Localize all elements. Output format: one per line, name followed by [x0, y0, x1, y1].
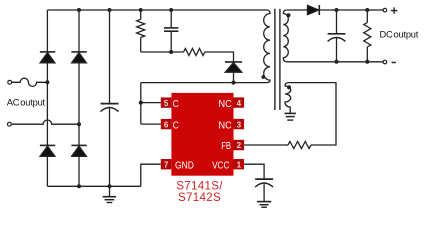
- pin 6 box: [161, 119, 172, 129]
- svg-text:C: C: [173, 120, 179, 131]
- resistor R3 (load): [364, 10, 371, 62]
- ground (aux winding): [285, 113, 296, 120]
- capacitor C3 (output electrolytic): [328, 10, 346, 62]
- wire top rail (rectified DC+): [47, 9, 266, 11]
- pin 5 box: [161, 97, 172, 107]
- transformer T1 primary winding: [264, 10, 270, 83]
- diode D6 (output rectifier): [308, 5, 320, 15]
- node bracket junction: [139, 101, 143, 105]
- svg-text:NC: NC: [219, 120, 232, 131]
- svg-text:GND: GND: [175, 161, 194, 172]
- wire to clamp diode: [205, 52, 234, 62]
- wire drain bracket to pins 5,6: [140, 83, 142, 125]
- wire snubber bottom: [141, 51, 184, 53]
- op-amp U1 S7141S/S7142S IC body: [171, 93, 233, 176]
- node drain line junction: [232, 81, 236, 85]
- node top rail junctions: [77, 8, 81, 12]
- pin 4 box: [234, 97, 245, 107]
- DC output terminal -: [383, 60, 387, 64]
- diode D2 (bridge top-right): [71, 52, 86, 63]
- DC output terminal +: [383, 8, 387, 12]
- pin 7 box: [161, 159, 172, 169]
- svg-text:4: 4: [237, 99, 242, 108]
- svg-text:1: 1: [237, 160, 242, 169]
- svg-text:6: 6: [164, 120, 169, 129]
- svg-text:2: 2: [237, 141, 242, 150]
- AC input terminal (top): [8, 80, 12, 84]
- ground (primary): [103, 186, 117, 202]
- transformer T1 secondary winding: [283, 10, 288, 62]
- svg-text:C: C: [173, 99, 179, 110]
- diode D5 (clamp): [225, 62, 242, 83]
- transformer T1 auxiliary winding: [285, 83, 291, 114]
- svg-text:FB: FB: [221, 141, 231, 152]
- wire secondary bottom / DC- line: [287, 61, 383, 63]
- pin 3 box: [234, 119, 245, 129]
- wire FB to aux winding: [289, 83, 337, 145]
- wire left rail / bridge left leg: [46, 10, 48, 186]
- wire AC bottom with hop over left leg: [11, 120, 79, 124]
- node AC top junction: [45, 80, 49, 84]
- node aux phase dot: [287, 85, 291, 89]
- svg-text:AC output: AC output: [7, 98, 46, 108]
- wire DC+ line: [319, 9, 383, 11]
- node secondary phase dot: [287, 13, 291, 17]
- svg-text:7: 7: [164, 160, 169, 169]
- node primary phase dot: [261, 75, 265, 79]
- node DC+ junctions: [335, 8, 339, 12]
- ground (VCC cap): [257, 202, 271, 208]
- minus sign: [392, 62, 396, 64]
- pin 2 box: [234, 140, 245, 150]
- node AC bottom junction: [77, 122, 81, 126]
- node bottom rail junctions: [77, 184, 81, 188]
- svg-text:S7142S: S7142S: [178, 191, 221, 204]
- capacitor C2 (snubber): [164, 10, 178, 52]
- wire bridge right leg: [78, 10, 80, 186]
- diode D1 (bridge top-left): [40, 52, 55, 63]
- resistor R4 (FB): [288, 142, 311, 149]
- fuse F1: [12, 78, 48, 86]
- svg-text:DC output: DC output: [380, 30, 419, 40]
- wire GND pin to bottom rail: [141, 164, 161, 186]
- diode D4 (bridge bottom-right): [71, 145, 86, 156]
- capacitor C1 (bulk electrolytic): [101, 10, 119, 186]
- svg-text:3: 3: [237, 120, 242, 129]
- wire drain line: [141, 82, 267, 84]
- label plus: [391, 7, 397, 13]
- node snubber junction: [169, 50, 173, 54]
- pin 1 box: [234, 159, 245, 169]
- resistor R2 (snubber series): [184, 49, 205, 56]
- AC input terminal (bottom): [7, 122, 11, 126]
- diode D3 (bridge bottom-left): [40, 145, 55, 156]
- wire FB network: [244, 144, 288, 146]
- resistor R1 (snubber): [137, 10, 145, 52]
- wire bottom rail: [47, 185, 140, 187]
- svg-text:VCC: VCC: [212, 161, 229, 172]
- node DC- junctions: [335, 60, 339, 64]
- svg-text:NC: NC: [219, 99, 232, 110]
- transformer T1 core: [275, 9, 280, 110]
- wire VCC pin: [244, 164, 264, 179]
- wire secondary top to diode: [287, 9, 308, 11]
- svg-text:5: 5: [164, 99, 169, 108]
- capacitor C4 (VCC): [255, 179, 273, 201]
